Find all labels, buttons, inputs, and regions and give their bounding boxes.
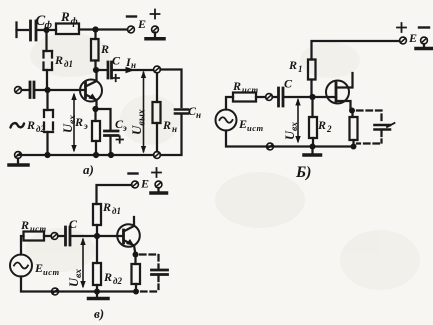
svg-text:C: C: [284, 77, 293, 91]
svg-text:д1: д1: [112, 206, 121, 216]
svg-text:э: э: [122, 123, 127, 133]
svg-text:E: E: [408, 31, 417, 45]
svg-text:Uвх: Uвх: [61, 115, 78, 133]
svg-text:2: 2: [326, 124, 332, 134]
svg-text:R: R: [60, 9, 70, 24]
svg-text:э: э: [83, 121, 88, 131]
svg-text:ф: ф: [45, 20, 53, 31]
svg-text:R: R: [54, 53, 63, 67]
svg-text:E: E: [34, 261, 43, 275]
svg-text:ист: ист: [43, 267, 60, 277]
svg-text:д2: д2: [113, 276, 122, 286]
svg-text:R: R: [317, 118, 326, 132]
svg-text:R: R: [26, 118, 35, 132]
svg-text:н: н: [196, 110, 201, 120]
svg-text:в): в): [94, 306, 104, 321]
svg-text:ф: ф: [71, 17, 78, 28]
svg-text:д1: д1: [64, 59, 73, 69]
svg-text:н: н: [172, 124, 177, 134]
svg-text:R: R: [103, 270, 112, 284]
svg-text:ист: ист: [242, 85, 259, 95]
svg-text:R: R: [162, 118, 171, 132]
svg-text:E: E: [137, 17, 146, 31]
svg-text:н: н: [131, 60, 136, 70]
svg-text:C: C: [69, 217, 78, 231]
svg-text:R: R: [232, 79, 241, 93]
svg-text:E: E: [238, 117, 247, 131]
svg-text:R: R: [20, 218, 29, 232]
svg-text:д2: д2: [36, 124, 45, 134]
svg-text:R: R: [288, 58, 297, 72]
svg-text:а): а): [83, 162, 94, 177]
svg-text:R: R: [102, 200, 111, 214]
svg-text:ист: ист: [247, 123, 264, 133]
svg-text:Uвх: Uвх: [67, 269, 84, 287]
svg-text:Б): Б): [295, 164, 312, 181]
svg-text:R: R: [100, 42, 109, 56]
svg-text:E: E: [140, 177, 149, 191]
svg-text:1: 1: [298, 64, 303, 74]
svg-text:ист: ист: [30, 224, 47, 234]
svg-text:C: C: [112, 54, 121, 68]
